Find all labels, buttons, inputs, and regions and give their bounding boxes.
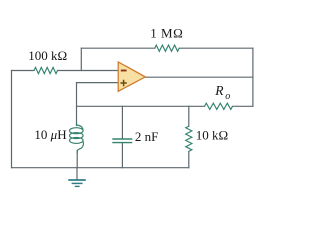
svg-text:2 nF: 2 nF <box>135 129 158 144</box>
svg-text:10 kΩ: 10 kΩ <box>196 128 228 143</box>
svg-text:o: o <box>225 91 230 102</box>
svg-text:R: R <box>214 83 224 98</box>
svg-text:10 μH: 10 μH <box>34 127 66 142</box>
svg-text:1 MΩ: 1 MΩ <box>150 26 183 41</box>
svg-text:100 kΩ: 100 kΩ <box>28 48 67 63</box>
